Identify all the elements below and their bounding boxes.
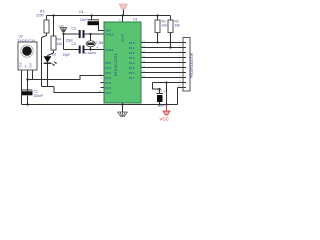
svg-text:P1.7: P1.7 [129,76,135,80]
svg-text:TSOP1736: TSOP1736 [17,38,35,42]
svg-text:C1: C1 [34,90,38,94]
svg-text:P1.1: P1.1 [129,46,135,50]
svg-text:10uF: 10uF [80,18,87,22]
svg-text:GND: GND [19,62,23,68]
svg-text:P3.1: P3.1 [106,66,112,70]
svg-text:P1.3: P1.3 [129,56,135,60]
svg-text:22pF: 22pF [63,53,71,57]
svg-text:+: + [164,90,166,94]
svg-text:XTAL2: XTAL2 [106,33,115,37]
svg-text:10k: 10k [57,42,63,46]
svg-text:RST: RST [106,29,112,33]
svg-text:C3: C3 [72,42,76,46]
svg-text:P1.5: P1.5 [129,66,135,70]
svg-text:P1.6: P1.6 [129,71,135,75]
svg-text:C5: C5 [158,89,162,93]
svg-text:10k: 10k [162,24,168,28]
svg-text:D1: D1 [52,53,56,57]
svg-text:OUT: OUT [29,62,33,68]
svg-text:P3.2: P3.2 [106,71,112,75]
svg-text:P3.0: P3.0 [106,61,112,65]
svg-text:VCC: VCC [160,117,170,122]
svg-text:100nF: 100nF [34,94,44,98]
svg-text:U1: U1 [133,18,138,22]
svg-text:4.19MHz: 4.19MHz [85,51,97,55]
svg-text:7,3M: 7,3M [96,41,104,45]
svg-text:XTAL1: XTAL1 [106,48,115,52]
svg-text:P1.4: P1.4 [129,61,135,65]
svg-text:P3.3: P3.3 [106,76,112,80]
svg-text:P1.2: P1.2 [129,51,135,55]
svg-text:2200: 2200 [36,13,44,17]
svg-text:AT89C2051: AT89C2051 [114,53,118,76]
svg-text:P3.7: P3.7 [106,91,112,95]
svg-text:P3.5: P3.5 [106,86,112,90]
svg-text:P3.4: P3.4 [106,81,112,85]
svg-text:P1.0: P1.0 [129,41,135,45]
svg-text:10k: 10k [175,24,181,28]
svg-text:10uF: 10uF [158,104,166,108]
svg-text:DIL20: DIL20 [121,34,125,42]
svg-text:C2: C2 [72,27,76,31]
svg-text:C4: C4 [79,10,83,14]
svg-text:PROGRAMATOR: PROGRAMATOR [190,52,194,78]
